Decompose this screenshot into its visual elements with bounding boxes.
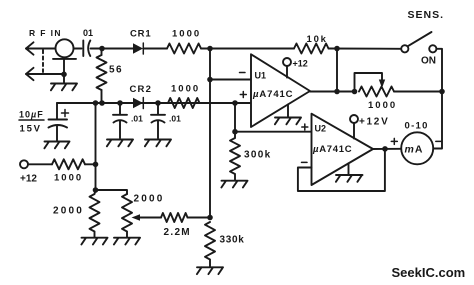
node junction rail/cap1 [117,100,123,106]
ground (cap1) [107,140,133,147]
meter 0-10 mA [401,132,433,164]
switch SENS contact left [401,45,408,52]
ground (RF input) [51,84,77,91]
svg-text:1000: 1000 [368,100,397,111]
wire rail corner to 10uF [56,103,58,119]
pot 2000 wiper arrow [132,214,141,220]
wire CR2 rail [57,102,251,104]
node junction at RF return [61,72,67,78]
antenna input arrow (upper) [26,42,34,54]
ground (300k) [221,181,247,188]
pickup base bar [53,58,76,60]
ground (2000 fixed) [81,238,107,245]
node junction cap/56 [99,46,105,52]
node A junction [207,46,213,52]
node junction 2.2M/330k [207,215,213,221]
ground (330k) [197,267,223,274]
svg-text:+12: +12 [20,174,37,185]
capacitor .01 (first bypass) [113,103,127,138]
svg-text:SENS.: SENS. [408,9,445,21]
node junction rail/cap2 [155,100,161,106]
resistor 10k (feedback) [294,44,328,54]
svg-text:.01: .01 [169,114,181,124]
resistor 1000 (bias feed) [52,159,85,169]
svg-text:2.2M: 2.2M [164,227,191,238]
svg-text:U2: U2 [315,124,327,134]
wire U1 inverting input [210,79,251,81]
wire resistor to node A [201,48,210,50]
resistor 1000 (CR1 row) [167,44,201,54]
svg-text:µA741C: µA741C [312,144,352,155]
svg-text:330k: 330k [220,235,245,246]
svg-text:U1: U1 [255,71,267,81]
svg-text:mA: mA [405,144,424,156]
antenna input arrow (lower) [26,68,34,80]
svg-text:1000: 1000 [172,29,201,40]
svg-text:1000: 1000 [171,84,200,95]
wire node A vertical run [209,49,211,218]
svg-text:CR1: CR1 [130,29,151,40]
svg-text:+12: +12 [293,59,308,69]
diode CR2 [133,98,143,109]
supply terminal +12V (U2) [350,115,358,139]
wire CR1 to resistor [143,48,167,50]
svg-text:R F IN: R F IN [29,28,62,38]
ground (U2) [336,163,363,182]
ground (10uF) [44,142,69,149]
switch SENS contact right [429,45,436,52]
svg-text:300k: 300k [244,150,271,161]
svg-text:56: 56 [109,65,123,76]
pot wiper loop [355,73,383,92]
node junction rail/56 [99,100,105,106]
resistor 56 (vertical) [97,49,107,104]
plus sign U1 [240,92,246,98]
svg-text:0-10: 0-10 [405,121,429,132]
op-amp U2 [312,114,374,185]
supply terminal +12 (bottom left) [20,160,28,168]
capacitor .01 (second bypass) [151,103,165,138]
minus sign U1 [240,72,246,74]
svg-text:µA741C: µA741C [252,89,293,100]
diode CR1 [133,43,143,54]
svg-text:CR2: CR2 [130,84,153,95]
node junction bias/riser [93,162,99,168]
wire switch to right riser [436,49,442,92]
node junction rail/down-line [93,100,99,106]
wire lower arrow to junction [26,73,64,75]
wire +12 to 1000 [28,163,52,165]
resistor 300k (vertical) [230,132,240,180]
wire to 2000 pot [96,190,128,194]
node junction U2+ / 300k [232,129,238,135]
minus sign meter [436,140,442,142]
pot wiper arrow [379,80,385,89]
svg-text:2000: 2000 [53,206,84,217]
wire U2 output [373,148,401,150]
svg-text:15V: 15V [20,124,42,135]
svg-text:+12V: +12V [359,117,389,128]
node junction inverting input [207,77,213,83]
node junction 2000s [93,187,99,193]
wire 2.2M to node [188,217,211,219]
ground (U1) [275,105,301,125]
minus sign U2 [302,161,308,163]
potentiometer 1000 [359,87,394,97]
wire 1000 to riser [85,163,96,165]
pickup element (circle) [56,39,74,57]
op-amp U1 [251,54,310,127]
wire 10k to switch [329,48,402,50]
node junction U2 output [382,146,388,152]
wire upper arrow to pickup [26,48,56,50]
node junction U1 output [334,89,340,95]
wire riser down to meter [433,92,442,149]
svg-text:10k: 10k [307,34,328,45]
resistor 2000 (fixed) [90,190,100,238]
node junction rail/U1+ tap [232,100,238,106]
plus sign U2 [302,124,308,130]
resistor 330k (vertical) [205,222,215,267]
resistor 2.2M [161,213,188,222]
wire wiper to 2.2M [140,217,162,219]
wire pot right to meter riser [394,91,442,93]
wire U1 output [310,91,355,93]
node junction pot left [352,89,358,95]
wire cap to node [91,48,134,50]
wire U1+ tap down to U2 [234,103,236,132]
svg-text:10µF: 10µF [19,110,44,120]
capacitor 01 (coupling) [83,41,90,57]
svg-text:.01: .01 [131,114,143,124]
plus sign of 10uF [62,110,69,117]
ground (2000 pot) [114,238,140,245]
plus sign meter [391,138,397,144]
node junction riser/pot row [439,89,445,95]
wire U2 feedback loop [298,149,385,191]
switch lever [408,32,432,46]
wire pickup base to junction [63,59,65,83]
wire pickup to coupling cap [74,48,82,50]
ground (cap2) [145,140,171,147]
capacitor 10uF 15V (electrolytic) [49,120,68,142]
potentiometer 2000 [122,194,132,238]
wire to U2 non-inverting input [235,131,311,133]
wire riser rail to 2000s [95,103,97,190]
svg-text:2000: 2000 [134,194,165,205]
resistor 1000 (CR2 row) [168,98,200,108]
svg-text:ON: ON [421,56,436,67]
svg-text:SeekIC.com: SeekIC.com [392,265,466,280]
wire node A to 10k [210,48,294,50]
node junction 10k/output riser [334,46,340,52]
svg-text:1000: 1000 [54,173,83,184]
underline of 10uF [19,119,44,121]
svg-text:01: 01 [83,28,93,38]
dashed link between arrows [42,50,44,72]
supply terminal +12 (U1) [283,58,291,78]
wire output riser to 10k row [336,49,338,92]
